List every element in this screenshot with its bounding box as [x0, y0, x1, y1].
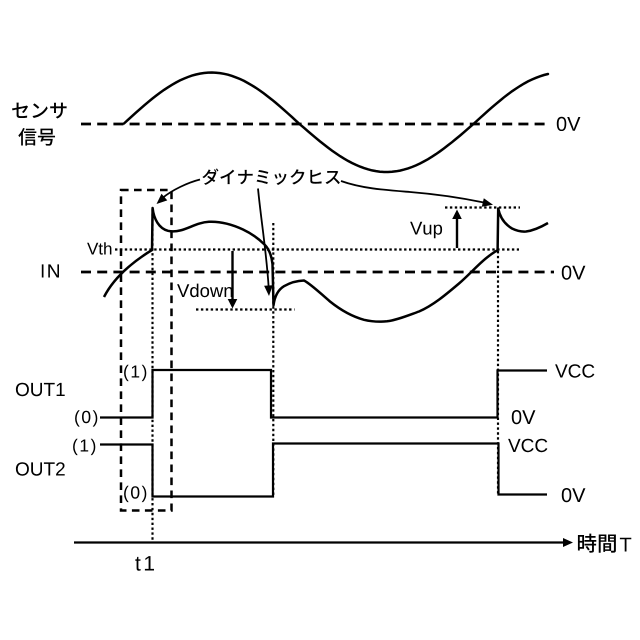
OUT2 0V label	[562, 488, 586, 502]
annotation arrow left to first spike	[163, 180, 201, 199]
OUT1 (1) level label	[124, 365, 146, 381]
OUT1 0V label	[512, 410, 536, 424]
Vth label	[87, 242, 111, 254]
annotation arrow right to second spike	[341, 181, 485, 203]
Vup top dotted level segment	[445, 206, 520, 208]
IN 0V label	[562, 266, 586, 280]
OUT2 VCC label	[508, 439, 547, 453]
sensor 0V label	[557, 117, 581, 131]
label sensor-signal line1 センサ	[12, 103, 67, 119]
time axis	[74, 541, 564, 543]
label 時間 (time)	[578, 534, 616, 553]
vertical dotted line mid (down-spike)	[272, 223, 274, 496]
OUT2 label	[16, 462, 65, 476]
OUT2 (0) level label	[124, 486, 146, 502]
Vup label	[410, 222, 442, 239]
OUT2 waveform	[100, 444, 547, 497]
label sensor-signal line2 信号	[18, 128, 55, 146]
time axis T label	[620, 538, 631, 552]
sensor 0V dashed baseline	[81, 123, 550, 126]
Vth dotted threshold line	[115, 248, 519, 250]
Vdown dotted level segment	[196, 308, 295, 310]
t1 label	[135, 556, 154, 571]
IN 0V dashed baseline	[81, 271, 554, 274]
OUT1 waveform	[100, 370, 547, 418]
sensor sine wave	[124, 73, 548, 173]
vertical dotted line t1	[151, 209, 153, 542]
OUT1 VCC label	[555, 364, 594, 378]
Vdown arrow	[231, 251, 233, 301]
Vup arrow	[456, 216, 458, 248]
IN label	[42, 264, 59, 277]
IN waveform with dynamic hysteresis spikes	[104, 208, 548, 322]
Vdown label	[177, 284, 232, 298]
OUT1 (0) entry label	[75, 410, 97, 426]
dashed highlight rectangle around t1	[121, 190, 172, 511]
OUT2 (1) entry label	[73, 439, 95, 455]
label ダイナミックヒス	[202, 169, 340, 185]
vertical dotted line right (up-spike)	[497, 251, 499, 494]
annotation arrow middle to down-spike	[258, 189, 269, 289]
OUT1 label	[16, 383, 65, 397]
